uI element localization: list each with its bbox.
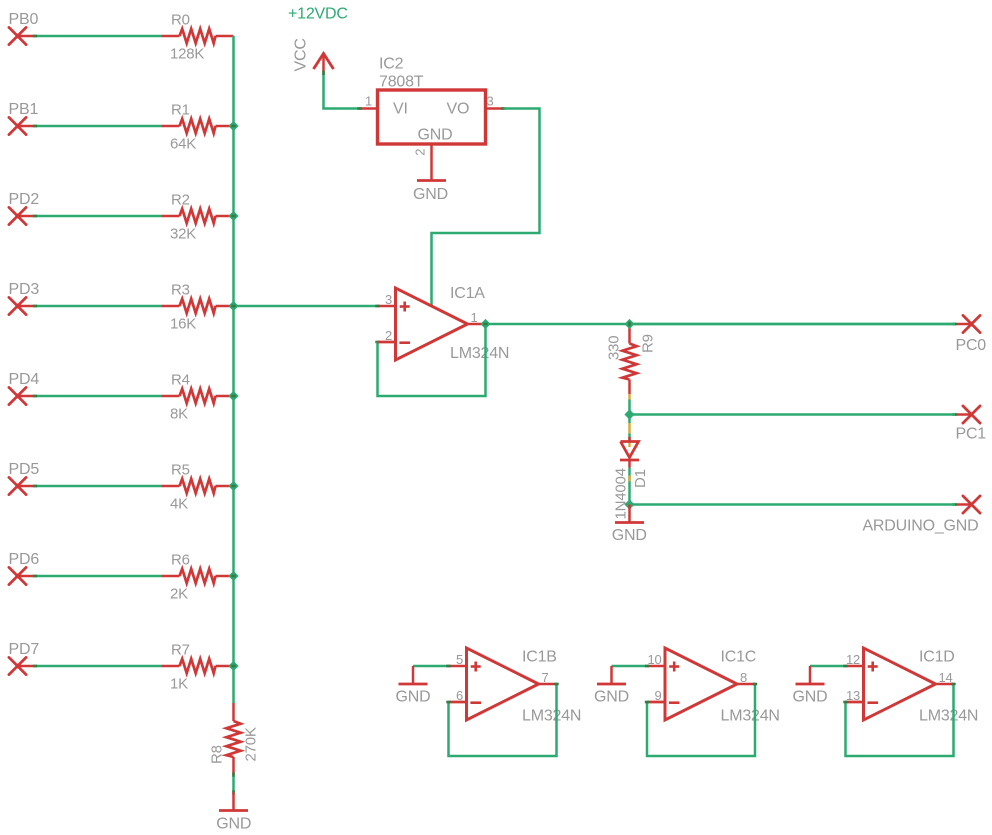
svg-text:R0: R0 — [171, 12, 190, 29]
svg-text:R4: R4 — [171, 372, 190, 389]
svg-text:LM324N: LM324N — [450, 345, 509, 362]
svg-text:PD4: PD4 — [9, 371, 40, 388]
svg-text:2: 2 — [385, 328, 392, 343]
svg-text:GND: GND — [612, 527, 647, 544]
svg-text:3: 3 — [487, 94, 494, 109]
svg-text:4K: 4K — [170, 495, 188, 512]
svg-text:128K: 128K — [170, 45, 204, 62]
svg-text:2K: 2K — [170, 585, 188, 602]
svg-text:PD2: PD2 — [9, 191, 40, 208]
svg-text:12: 12 — [846, 652, 860, 667]
svg-text:R6: R6 — [171, 552, 190, 569]
svg-text:R5: R5 — [171, 462, 190, 479]
svg-text:R2: R2 — [171, 192, 190, 209]
svg-text:PB0: PB0 — [9, 11, 39, 28]
svg-text:8K: 8K — [170, 405, 188, 422]
svg-text:PC0: PC0 — [955, 337, 986, 354]
svg-text:GND: GND — [216, 816, 251, 833]
svg-text:IC1C: IC1C — [721, 649, 757, 666]
svg-text:PD3: PD3 — [9, 281, 40, 298]
svg-text:270K: 270K — [242, 727, 259, 761]
svg-text:16K: 16K — [170, 315, 196, 332]
svg-text:PD7: PD7 — [9, 641, 40, 658]
svg-text:10: 10 — [647, 652, 661, 667]
svg-text:VO: VO — [447, 100, 470, 117]
svg-text:R3: R3 — [171, 282, 190, 299]
svg-text:GND: GND — [396, 689, 431, 706]
svg-text:VI: VI — [393, 100, 408, 117]
svg-text:IC1D: IC1D — [919, 649, 955, 666]
svg-text:R9: R9 — [639, 334, 656, 353]
svg-text:D1: D1 — [632, 469, 649, 488]
svg-text:7: 7 — [542, 670, 549, 685]
svg-text:GND: GND — [413, 186, 448, 203]
svg-text:LM324N: LM324N — [919, 708, 978, 725]
svg-text:1K: 1K — [170, 675, 188, 692]
svg-text:9: 9 — [654, 688, 661, 703]
svg-text:LM324N: LM324N — [522, 708, 581, 725]
svg-text:PB1: PB1 — [9, 101, 39, 118]
svg-text:GND: GND — [793, 689, 828, 706]
svg-text:64K: 64K — [170, 135, 196, 152]
svg-text:LM324N: LM324N — [721, 708, 780, 725]
svg-text:14: 14 — [939, 670, 953, 685]
svg-text:PD5: PD5 — [9, 461, 40, 478]
svg-text:2: 2 — [413, 149, 428, 156]
svg-text:8: 8 — [740, 670, 747, 685]
svg-text:6: 6 — [456, 688, 463, 703]
svg-text:PC1: PC1 — [955, 426, 986, 443]
svg-text:R7: R7 — [171, 642, 190, 659]
svg-text:GND: GND — [418, 126, 453, 143]
svg-text:330: 330 — [606, 336, 623, 360]
svg-text:1: 1 — [471, 310, 478, 325]
svg-text:GND: GND — [594, 689, 629, 706]
svg-text:IC2: IC2 — [379, 56, 404, 73]
svg-text:7808T: 7808T — [379, 73, 424, 90]
svg-text:+12VDC: +12VDC — [288, 6, 348, 23]
svg-text:R1: R1 — [171, 102, 190, 119]
svg-text:R8: R8 — [209, 745, 226, 764]
svg-text:IC1B: IC1B — [522, 649, 557, 666]
svg-text:PD6: PD6 — [9, 551, 40, 568]
svg-text:IC1A: IC1A — [450, 285, 485, 302]
svg-text:3: 3 — [385, 292, 392, 307]
svg-text:5: 5 — [456, 652, 463, 667]
svg-text:1N4004: 1N4004 — [613, 468, 630, 519]
svg-text:ARDUINO_GND: ARDUINO_GND — [862, 518, 978, 535]
svg-text:13: 13 — [846, 688, 860, 703]
svg-text:VCC: VCC — [293, 38, 310, 71]
svg-text:32K: 32K — [170, 225, 196, 242]
svg-text:1: 1 — [365, 94, 372, 109]
